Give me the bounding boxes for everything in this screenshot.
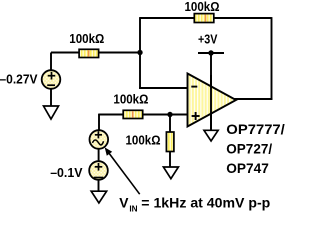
wire R4 to ground [169,152,171,168]
svg-text:OP747: OP747 [226,160,269,176]
svg-text:100kΩ: 100kΩ [185,0,220,14]
wire feedback top [140,17,272,19]
wire inverting node vertical [139,17,141,89]
wire noninverting input [99,114,188,116]
op-amp U1 [188,74,237,131]
svg-text:= 1kHz at 40mV p-p: = 1kHz at 40mV p-p [141,196,270,211]
label vin equation [119,196,270,214]
ground under op-amp [204,130,218,141]
source V3 -0.1V [89,161,108,180]
wire +3V rail bar [198,52,224,54]
node inverting junction [137,50,142,55]
source V1 -0.27V [42,53,61,107]
wire down to AC source [98,114,100,131]
svg-text:V: V [119,196,129,211]
ground under R4 [163,167,178,179]
arrow vin pointer [105,147,140,194]
node noninverting junction [167,112,172,117]
wire to inverting input [139,87,187,89]
svg-text:IN: IN [129,205,137,214]
wire junction to R4 [169,115,171,133]
wire V3 to ground [98,180,100,192]
wire +3V supply vertical [210,53,212,130]
label opamp types [226,121,285,176]
svg-text:–0.1V: –0.1V [50,165,82,180]
svg-text:100kΩ: 100kΩ [69,31,104,46]
svg-text:+3V: +3V [198,32,218,47]
resistor R1 100k input [79,49,99,57]
svg-text:100kΩ: 100kΩ [113,91,148,106]
svg-text:100kΩ: 100kΩ [126,132,161,147]
svg-text:OP7777/: OP7777/ [226,121,285,137]
ground under V3 [91,191,106,203]
resistor R2 100k [123,110,143,118]
svg-text:OP727/: OP727/ [226,141,272,157]
wire op-amp output [234,98,272,100]
resistor RF 100k feedback [194,14,214,23]
ground under V1 [44,106,59,119]
wire input left [51,52,141,54]
resistor R4 100k vertical [166,132,174,152]
wire right side vertical [271,17,273,100]
node +3V dot [208,50,213,55]
svg-text:–0.27V: –0.27V [0,71,38,86]
wire between sources [98,149,100,162]
source V2 AC vin [90,130,109,149]
